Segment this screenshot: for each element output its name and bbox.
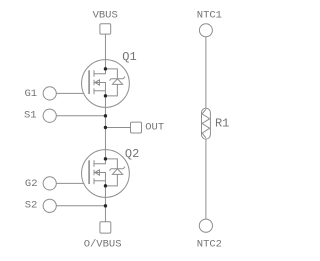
svg-text:S2: S2 [25,200,38,212]
svg-text:OUT: OUT [145,122,164,134]
svg-text:Q1: Q1 [122,50,136,64]
svg-text:Q2: Q2 [125,147,139,161]
svg-text:S1: S1 [24,109,37,121]
svg-text:G2: G2 [25,178,38,190]
svg-text:NTC2: NTC2 [197,239,222,251]
svg-text:O/VBUS: O/VBUS [84,238,122,250]
svg-text:VBUS: VBUS [93,9,118,21]
svg-text:G1: G1 [24,88,37,100]
svg-text:NTC1: NTC1 [197,10,222,22]
svg-text:R1: R1 [215,117,229,131]
